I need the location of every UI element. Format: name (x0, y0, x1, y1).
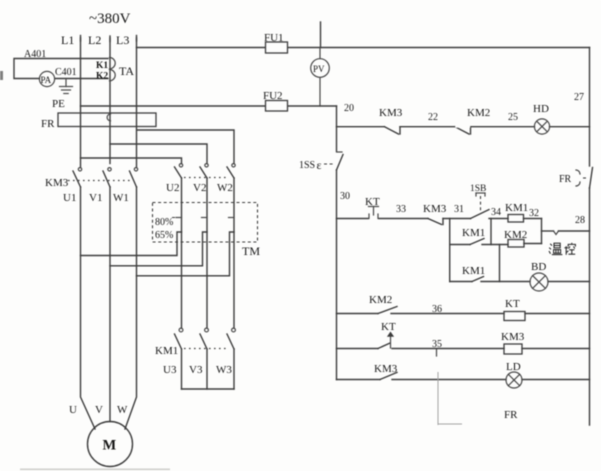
label U (69, 404, 77, 416)
label W3 (216, 364, 232, 376)
svg-text:33: 33 (396, 204, 406, 215)
node L3 (116, 33, 137, 47)
label 80% (155, 217, 178, 228)
node 36 (432, 304, 442, 315)
svg-text:FR: FR (504, 409, 518, 421)
faint FR text (504, 409, 518, 421)
label W2 (217, 182, 233, 194)
node 20 (344, 103, 354, 114)
contact KM2 HD row (455, 107, 490, 134)
svg-text:BD: BD (531, 261, 546, 273)
contactor KM3 main contact V1 (103, 168, 111, 187)
wire branch to V2 (110, 144, 207, 164)
label U2 (166, 182, 179, 194)
svg-text:FR: FR (41, 118, 55, 130)
selfhold row wire (450, 244, 542, 245)
contactor KM1 contact V3 (200, 328, 208, 349)
label TM (242, 244, 260, 258)
node 27 (574, 92, 584, 103)
svg-text:PA: PA (41, 75, 52, 85)
node 25 (508, 112, 518, 123)
edge smudge (0, 71, 3, 80)
gap for KM2 contact (455, 126, 470, 128)
svg-text:L2: L2 (88, 33, 101, 47)
thermal relay FR heater box (41, 113, 156, 130)
svg-text:TM: TM (242, 244, 260, 258)
svg-text:W1: W1 (113, 192, 129, 204)
svg-text:KM2: KM2 (467, 107, 490, 119)
svg-text:LD: LD (506, 361, 521, 373)
switch 1SS (299, 152, 343, 172)
label A401 (24, 49, 46, 60)
coil KM2 (504, 229, 527, 247)
star point wires (182, 349, 235, 389)
svg-text:A401: A401 (24, 49, 46, 60)
coil KM1 (505, 202, 528, 222)
svg-text:36: 36 (432, 304, 442, 315)
label U3 (163, 364, 177, 376)
node 31 (454, 204, 464, 215)
node 30 (340, 191, 350, 202)
svg-text:HD: HD (533, 103, 549, 115)
autotransformer TM winding column 3 (233, 178, 235, 328)
motor M (88, 422, 133, 467)
svg-text:KM3: KM3 (423, 203, 447, 215)
svg-text:V: V (95, 404, 103, 416)
label V3 (189, 364, 203, 376)
label KM1 main (155, 345, 178, 357)
svg-text:31: 31 (454, 204, 464, 215)
svg-text:25: 25 (508, 112, 518, 123)
contact V2 (200, 164, 208, 178)
svg-text:U2: U2 (166, 182, 179, 194)
svg-text:K2: K2 (96, 72, 108, 82)
svg-text:~380V: ~380V (89, 11, 131, 27)
row4 wire (337, 313, 590, 315)
svg-text:KT: KT (381, 321, 396, 333)
svg-text:KM1: KM1 (155, 345, 178, 357)
lamp BD (530, 261, 548, 291)
row2 wire (337, 218, 542, 220)
label U1 (63, 192, 76, 204)
coil KM3 (501, 331, 525, 354)
svg-text:V1: V1 (89, 192, 102, 204)
KM3 linkage dotted (68, 180, 131, 182)
svg-text:U: U (69, 404, 77, 416)
contact KM1 BD row (462, 265, 485, 282)
svg-text:TA: TA (119, 64, 134, 78)
svg-text:KM1: KM1 (505, 202, 528, 214)
node 35 (432, 339, 442, 356)
wire branch to U2 (81, 158, 182, 164)
ground PE (52, 79, 73, 111)
svg-text:27: 27 (574, 92, 584, 103)
wire motor feed U (81, 187, 96, 429)
svg-text:KM2: KM2 (369, 294, 392, 306)
tap tick 80% col2 (202, 217, 208, 219)
pushbutton 1SB (470, 184, 489, 219)
svg-text:L1: L1 (61, 33, 74, 47)
crease artifact vertical (438, 372, 462, 425)
row6 wire (337, 379, 590, 381)
tap tick 80% col3 (229, 217, 235, 219)
contactor KM1 contact U3 (175, 328, 183, 349)
thermal contact FR right (559, 168, 593, 189)
svg-text:C401: C401 (55, 67, 77, 78)
svg-text:U1: U1 (63, 192, 76, 204)
svg-text:L3: L3 (116, 33, 129, 47)
time contact KT row5 with arrow (378, 321, 396, 349)
svg-text:PE: PE (52, 98, 65, 110)
label V1 (89, 192, 102, 204)
label TA (119, 64, 134, 78)
bottom streak (20, 469, 170, 471)
label W1 (113, 192, 129, 204)
contact KM3 row2 (423, 203, 447, 225)
svg-text:M: M (103, 438, 117, 454)
contact KM3 row6 (374, 363, 398, 380)
contact U2 (175, 164, 183, 178)
KM1 linkage dotted (184, 348, 229, 350)
label C401 (55, 67, 77, 78)
time relay contact KT row2 (365, 196, 380, 219)
svg-text:ε: ε (317, 158, 322, 172)
control left rail (336, 106, 338, 380)
label ~380V (89, 11, 131, 27)
lamp HD (533, 103, 550, 134)
junction vertical right of coils (541, 219, 543, 244)
coil KT (504, 298, 525, 321)
svg-text:22: 22 (428, 112, 438, 123)
tap wire 65% col1 (81, 232, 182, 256)
label V (95, 404, 103, 416)
contact KM3 HD row (379, 107, 403, 134)
node L1 (61, 33, 81, 47)
wire phase L3 vertical (136, 38, 138, 167)
node 32 (529, 208, 539, 219)
svg-text:28: 28 (575, 215, 585, 226)
node 28 (575, 215, 585, 226)
ammeter loop wires A401 (14, 59, 108, 79)
ammeter PA (39, 71, 54, 86)
svg-text:KM1: KM1 (462, 227, 485, 239)
autotransformer TM winding column 2 (206, 178, 208, 328)
svg-text:KM1: KM1 (462, 265, 485, 277)
svg-text:65%: 65% (155, 230, 173, 241)
U2 row linkage dotted (184, 177, 229, 179)
node L2 (88, 33, 110, 47)
current transformer TA terminal K2 (96, 70, 115, 82)
svg-text:KT: KT (505, 298, 520, 310)
wire phase L1 vertical (80, 38, 82, 167)
contactor KM3 main contact W1 (130, 168, 138, 187)
svg-text:30: 30 (340, 191, 350, 202)
svg-text:W2: W2 (217, 182, 233, 194)
row5 wire (337, 348, 590, 350)
svg-text:34: 34 (491, 207, 501, 218)
svg-text:1SS: 1SS (299, 160, 315, 171)
contact W2 (227, 164, 235, 178)
svg-text:W: W (117, 404, 128, 416)
fuse FU2 (81, 90, 337, 111)
svg-text:FR: FR (559, 174, 572, 185)
wire to node 28 with thermostat contact (542, 231, 590, 235)
contactor KM1 contact W3 (227, 328, 235, 349)
label V2 (193, 182, 206, 194)
HD row wire (337, 126, 590, 128)
svg-text:KM3: KM3 (379, 107, 403, 119)
contact KM2 row4 (369, 294, 397, 314)
svg-text:20: 20 (344, 103, 354, 114)
vertical from node34 down (490, 219, 492, 245)
TM dashed enclosure (153, 203, 258, 243)
svg-text:KM3: KM3 (501, 331, 525, 343)
wire phase L2 vertical (109, 38, 111, 164)
svg-text:80%: 80% (155, 217, 173, 228)
tap wire 65% col2 (110, 232, 207, 266)
current transformer TA terminal K1 (96, 58, 115, 72)
svg-text:35: 35 (432, 339, 442, 350)
label W (117, 404, 128, 416)
svg-text:KM3: KM3 (45, 177, 69, 189)
wire branch to W2 (137, 130, 234, 164)
BD row wire (450, 281, 590, 283)
autotransformer TM winding column 1 (181, 178, 183, 328)
wire motor feed W (125, 187, 137, 429)
contactor KM3 main contact U1 (73, 168, 82, 187)
svg-text:U3: U3 (163, 364, 177, 376)
svg-text:K1: K1 (96, 61, 108, 71)
label 65% (155, 230, 173, 241)
tap wire 65% col3 (137, 232, 235, 276)
svg-text:W3: W3 (216, 364, 232, 376)
fuse FU1 (137, 32, 590, 53)
node 34 (491, 207, 501, 218)
contact KM1 selfhold (462, 227, 485, 245)
label thermostat (wen kong) (549, 243, 575, 255)
wire stub above junction (320, 22, 322, 48)
right rail (589, 48, 591, 426)
wire motor feed V (109, 187, 111, 422)
node 22 (428, 112, 438, 123)
svg-text:V2: V2 (193, 182, 206, 194)
svg-text:PV: PV (313, 64, 325, 74)
svg-text:V3: V3 (189, 364, 203, 376)
lamp LD (506, 361, 522, 388)
label KM3 main (45, 177, 69, 189)
vertical from node31 down (449, 219, 451, 282)
svg-text:32: 32 (529, 208, 539, 219)
vertical to BD row (499, 245, 501, 282)
voltmeter PV (311, 48, 330, 107)
node 33 (396, 204, 406, 215)
tap tick 80% col1 (176, 217, 182, 219)
